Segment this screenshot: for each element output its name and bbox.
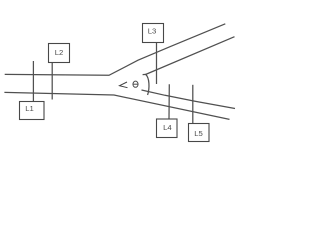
- svg-text:L3: L3: [148, 26, 157, 35]
- svg-text:L5: L5: [194, 129, 203, 138]
- svg-text:L4: L4: [163, 123, 172, 132]
- svg-text:L1: L1: [25, 104, 34, 113]
- svg-text:L2: L2: [55, 48, 64, 57]
